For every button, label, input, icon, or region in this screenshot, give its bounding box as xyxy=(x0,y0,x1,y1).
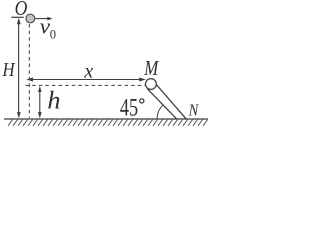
ground line xyxy=(4,118,208,120)
dashed horizontal line at M height xyxy=(26,84,146,86)
dashed drop line below ball xyxy=(28,24,30,118)
svg-text:x: x xyxy=(83,60,93,83)
label v0 xyxy=(40,14,56,42)
velocity arrow v0 xyxy=(35,17,52,21)
svg-text:N: N xyxy=(188,102,200,120)
svg-text:0: 0 xyxy=(50,27,56,41)
incline rod MN left edge xyxy=(147,89,177,120)
ball at O xyxy=(26,14,35,23)
45 degree angle arc xyxy=(157,105,163,120)
launch platform tick at O xyxy=(11,16,23,18)
incline rod MN right edge xyxy=(155,83,186,119)
dimension line x (double arrow) xyxy=(26,78,146,82)
svg-text:H: H xyxy=(2,58,16,81)
ball at M xyxy=(146,79,157,90)
svg-text:45: 45 xyxy=(120,94,138,121)
svg-text:h: h xyxy=(47,86,60,114)
dimension line H (double arrow) xyxy=(17,18,21,119)
ground hatching xyxy=(8,120,208,126)
dimension line h (double arrow) xyxy=(38,86,42,119)
svg-text:v: v xyxy=(40,14,50,38)
svg-text:M: M xyxy=(143,57,159,80)
